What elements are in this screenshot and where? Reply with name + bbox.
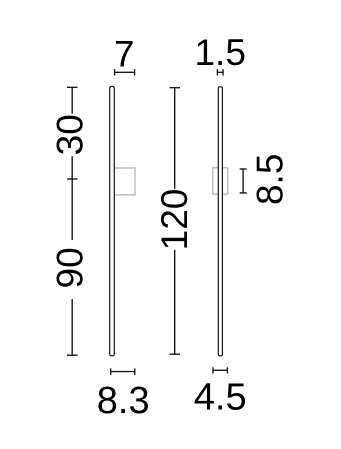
svg-text:7: 7 (114, 34, 135, 75)
svg-text:1.5: 1.5 (194, 32, 245, 73)
mounting bracket (side view) (213, 168, 228, 194)
label 8.3 (97, 380, 150, 422)
label 1.5 (194, 32, 245, 73)
svg-text:90: 90 (49, 247, 90, 288)
dimension line 120 (vertical, side view) (170, 88, 181, 355)
dimension line 7 (top, front view) (115, 69, 135, 75)
dimension line 8.3 (bottom, front view) (111, 368, 135, 374)
label 4.5 (194, 377, 247, 419)
dimension line 1.5 (top, side view) (217, 69, 223, 75)
svg-text:8.5: 8.5 (249, 154, 290, 205)
label 7 (114, 34, 135, 75)
label 90 (rotated) (49, 247, 90, 288)
svg-text:120: 120 (154, 189, 195, 251)
dimension line 4.5 (bottom, side view) (213, 367, 227, 373)
label 30 (rotated) (49, 114, 90, 155)
svg-text:30: 30 (49, 114, 90, 155)
label 8.5 (rotated) (249, 154, 290, 205)
svg-text:4.5: 4.5 (194, 377, 247, 419)
dimension line 30/90 (left, vertical) (67, 87, 78, 355)
svg-text:8.3: 8.3 (97, 380, 150, 422)
lamp bar (side view) (218, 87, 222, 356)
mounting bracket (front view) (114, 168, 136, 195)
dimension line 8.5 (bracket height, side view) (240, 169, 247, 193)
lamp bar (front view) (110, 87, 115, 356)
label 120 (rotated) (154, 189, 195, 251)
